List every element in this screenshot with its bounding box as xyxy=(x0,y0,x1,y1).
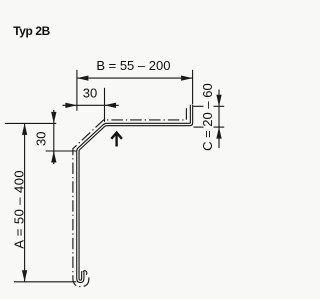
profile sheet outer stroke (double line) xyxy=(78,105,192,282)
arrowhead A bottom xyxy=(22,270,27,282)
arrowhead 30h left (outside) xyxy=(65,103,77,108)
arrowhead B left xyxy=(77,75,89,80)
dimension line 30 vertical (x=53.8) xyxy=(53,110,55,164)
dimension line C (x=219) xyxy=(218,90,220,149)
dimension line 30 horizontal xyxy=(63,104,119,106)
dimension line A (x=24.6) xyxy=(24,123,26,281)
extension line B left / 30 left (x=76.9) xyxy=(76,70,78,111)
arrowhead B right xyxy=(181,75,193,80)
svg-text:B = 55 – 200: B = 55 – 200 xyxy=(96,58,170,73)
hem top curl xyxy=(83,271,87,275)
arrowhead 30v bottom (outside) xyxy=(51,151,56,163)
extension line A bottom (y=281.8) xyxy=(14,281,76,283)
extension line B right (x=192.6) xyxy=(192,70,194,104)
extension line 30 right (x=104.5) xyxy=(104,88,106,122)
arrowhead 30h right (outside) xyxy=(105,103,117,108)
extension line 30 vertical bottom (y=151) xyxy=(46,150,77,152)
direction arrow up xyxy=(111,133,122,147)
svg-text:30: 30 xyxy=(33,131,48,145)
svg-text:A = 50 – 400: A = 50 – 400 xyxy=(12,170,27,249)
extension line C top (y=106.3) xyxy=(193,105,203,107)
svg-text:30: 30 xyxy=(83,86,97,101)
extension line C bottom (y=127.1) xyxy=(194,126,204,128)
profile sheet inner gap xyxy=(78,105,192,282)
arrowhead C top (outside) xyxy=(216,95,221,107)
arrowhead A top xyxy=(22,123,27,134)
svg-text:C = 20 – 60: C = 20 – 60 xyxy=(200,83,215,151)
extension line top-left shared (y=123.4) xyxy=(5,122,56,124)
dash-dot marking line xyxy=(73,108,186,286)
arrowhead C bottom (outside) xyxy=(216,127,221,139)
dimension line B xyxy=(77,77,193,79)
svg-text:Typ 2B: Typ 2B xyxy=(13,24,50,38)
arrowhead 30v top (outside) xyxy=(51,112,56,124)
